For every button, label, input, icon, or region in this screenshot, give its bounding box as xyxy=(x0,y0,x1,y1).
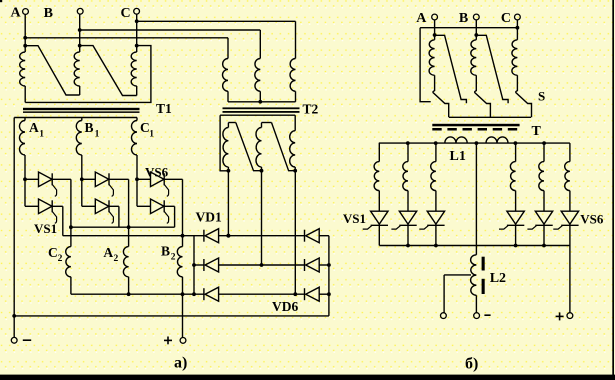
svg-text:S: S xyxy=(538,89,545,104)
svg-text:A: A xyxy=(11,6,22,21)
svg-text:A: A xyxy=(29,120,39,135)
svg-text:B: B xyxy=(459,11,468,26)
svg-text:VD1: VD1 xyxy=(196,210,222,225)
svg-text:VS6: VS6 xyxy=(580,212,604,227)
svg-text:1: 1 xyxy=(39,129,44,139)
svg-text:B: B xyxy=(44,6,53,21)
svg-text:B: B xyxy=(161,244,170,259)
svg-text:C: C xyxy=(501,11,511,26)
svg-text:а): а) xyxy=(174,355,187,372)
svg-text:C: C xyxy=(121,6,131,21)
svg-text:T2: T2 xyxy=(303,101,319,116)
svg-text:VS6: VS6 xyxy=(145,165,169,180)
svg-text:C: C xyxy=(48,245,58,260)
svg-text:б): б) xyxy=(465,355,478,372)
svg-text:VS1: VS1 xyxy=(343,211,366,226)
svg-text:A: A xyxy=(416,11,427,26)
svg-text:L2: L2 xyxy=(490,271,506,286)
svg-text:L1: L1 xyxy=(450,149,466,164)
svg-text:VS1: VS1 xyxy=(34,221,57,236)
svg-text:T1: T1 xyxy=(156,101,172,116)
svg-text:1: 1 xyxy=(95,129,100,139)
svg-text:2: 2 xyxy=(58,254,63,264)
svg-text:A: A xyxy=(103,245,113,260)
svg-text:B: B xyxy=(85,120,94,135)
svg-text:T: T xyxy=(532,124,542,139)
svg-text:VD6: VD6 xyxy=(272,299,298,314)
svg-text:2: 2 xyxy=(171,252,176,262)
svg-text:2: 2 xyxy=(114,254,119,264)
svg-text:1: 1 xyxy=(149,130,154,140)
svg-text:C: C xyxy=(140,120,150,135)
